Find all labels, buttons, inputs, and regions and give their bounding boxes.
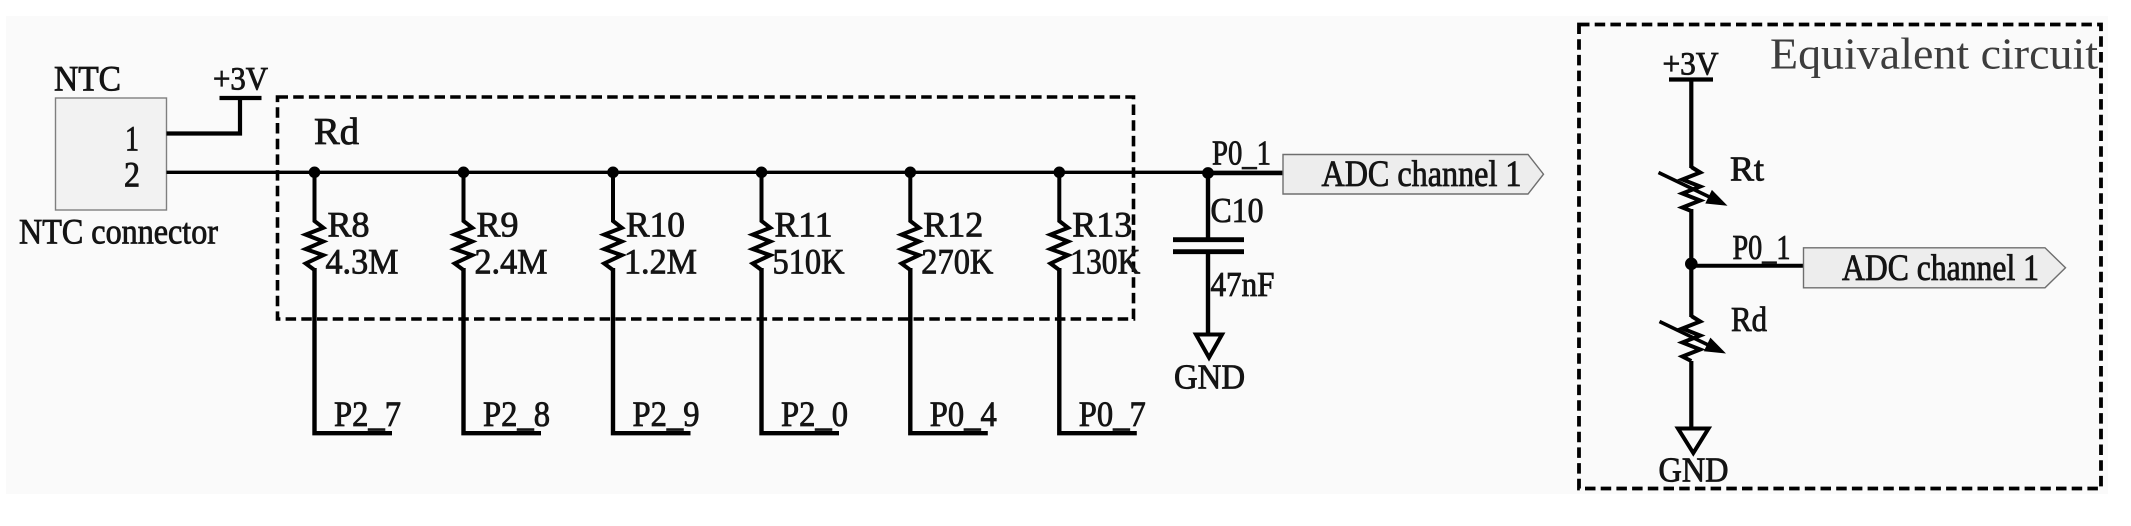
svg-text:ADC channel 1: ADC channel 1	[1322, 154, 1522, 195]
svg-text:GND: GND	[1174, 358, 1245, 397]
title Equivalent circuit	[1770, 30, 2098, 79]
node P0_1 junction dot (right)	[1685, 258, 1698, 271]
svg-text:510K: 510K	[773, 242, 845, 282]
resistor R11	[753, 172, 771, 270]
svg-text:130K: 130K	[1070, 242, 1140, 282]
resistor Rd zigzag	[1682, 316, 1700, 361]
wire R8 to pin P2_7	[315, 268, 393, 433]
svg-text:P2_9: P2_9	[633, 394, 700, 434]
wire node to Rd	[1689, 264, 1693, 317]
svg-text:ADC channel 1: ADC channel 1	[1842, 248, 2039, 289]
resistor R10	[604, 172, 622, 270]
svg-text:R13: R13	[1072, 205, 1132, 245]
junction dot at R12	[905, 167, 917, 179]
junction dot at R11	[756, 167, 768, 179]
resistor Rt wiper arrow	[1659, 173, 1728, 206]
pin label P2_7	[334, 394, 401, 434]
svg-text:R11: R11	[775, 205, 833, 245]
node P0_1 label	[1212, 134, 1271, 173]
value 270K of R12	[921, 242, 993, 282]
junction dot at R13	[1054, 167, 1066, 179]
wire R13 to pin P0_7	[1059, 268, 1137, 433]
svg-text:P2_8: P2_8	[483, 394, 550, 434]
wire node to ADC flag (right)	[1691, 264, 1804, 268]
label R11	[775, 205, 833, 245]
svg-text:NTC connector: NTC connector	[19, 212, 218, 252]
wire R9 to pin P2_8	[464, 268, 542, 433]
resistor Rd wiper arrow	[1660, 322, 1727, 354]
svg-text:1.2M: 1.2M	[624, 242, 697, 282]
power +3V label (left)	[213, 62, 268, 98]
junction dot at R10	[607, 167, 619, 179]
pin label P0_7	[1079, 394, 1146, 434]
wire +3V to Rt	[1689, 80, 1693, 169]
ground label GND (right)	[1659, 451, 1729, 490]
wire R11 to pin P2_0	[762, 268, 840, 433]
capacitor C10 value 47nF	[1211, 265, 1275, 304]
node P0_1 junction dot	[1202, 167, 1214, 179]
svg-text:Rt: Rt	[1730, 150, 1764, 189]
svg-text:2: 2	[124, 155, 140, 195]
power +3V bar symbol (left)	[220, 96, 262, 100]
svg-text:P0_4: P0_4	[930, 394, 997, 434]
svg-text:1: 1	[125, 119, 139, 159]
svg-text:C10: C10	[1211, 191, 1264, 230]
svg-text:2.4M: 2.4M	[475, 242, 548, 282]
connector pin 2 label	[124, 155, 140, 195]
svg-text:P2_7: P2_7	[334, 394, 401, 434]
ground symbol (right)	[1678, 429, 1709, 454]
label Rd (right)	[1731, 300, 1767, 339]
value 510K of R11	[773, 242, 845, 282]
junction dot at R9	[458, 167, 470, 179]
connector J: NTC label	[54, 59, 121, 99]
wire node to ADC flag	[1208, 171, 1284, 175]
wire Rt to node	[1689, 209, 1693, 265]
capacitor C10 plates	[1173, 240, 1244, 252]
svg-text:P0_1: P0_1	[1212, 134, 1271, 173]
value 2.4M of R9	[475, 242, 548, 282]
resistor R13	[1051, 172, 1069, 270]
capacitor C10 bottom lead	[1206, 253, 1210, 334]
value 130K of R13	[1070, 242, 1140, 282]
label R10	[626, 205, 685, 245]
pin label P2_8	[483, 394, 550, 434]
label R12	[923, 205, 983, 245]
wire R10 to pin P2_9	[613, 268, 691, 433]
svg-text:P0_7: P0_7	[1079, 394, 1146, 434]
wire pin1 to +3V	[167, 96, 241, 134]
wire Rd to ground	[1689, 361, 1693, 429]
pin label P2_0	[781, 394, 848, 434]
svg-text:R8: R8	[328, 205, 370, 245]
power +3V bar symbol (right)	[1669, 77, 1713, 81]
wire R12 to pin P0_4	[910, 268, 988, 433]
svg-text:GND: GND	[1659, 451, 1729, 490]
svg-text:270K: 270K	[921, 242, 993, 282]
svg-text:NTC: NTC	[54, 59, 121, 99]
connector caption: NTC connector	[19, 212, 218, 252]
dashed box Rd group	[278, 97, 1134, 319]
pin label P2_9	[633, 394, 700, 434]
ground symbol (left)	[1196, 335, 1222, 358]
value 4.3M of R8	[326, 242, 399, 282]
label Rt	[1730, 150, 1764, 189]
label R8	[328, 205, 370, 245]
label R13	[1072, 205, 1132, 245]
label R9	[477, 205, 519, 245]
wire bus pin2 node A	[167, 171, 1284, 174]
svg-text:R10: R10	[626, 205, 685, 245]
connector pin 1 label	[125, 119, 139, 159]
power +3V label (right)	[1663, 47, 1719, 83]
svg-text:P0_1: P0_1	[1733, 228, 1791, 267]
svg-text:Rd: Rd	[314, 111, 359, 153]
svg-text:+3V: +3V	[213, 62, 268, 98]
svg-text:P2_0: P2_0	[781, 394, 848, 434]
value 1.2M of R10	[624, 242, 697, 282]
label Rd	[314, 111, 359, 153]
resistor R12	[902, 172, 920, 270]
dashed box Equivalent circuit	[1579, 25, 2101, 489]
svg-text:+3V: +3V	[1663, 47, 1719, 83]
resistor R9	[455, 172, 473, 270]
svg-text:R12: R12	[923, 205, 983, 245]
svg-text:4.3M: 4.3M	[326, 242, 399, 282]
svg-text:R9: R9	[477, 205, 519, 245]
svg-text:Equivalent circuit: Equivalent circuit	[1770, 30, 2098, 79]
connector J: NTC connector body	[56, 98, 167, 210]
node P0_1 label (right)	[1733, 228, 1791, 267]
ADC channel 1 flag (left)	[1283, 154, 1544, 195]
pin label P0_4	[930, 394, 997, 434]
resistor R8	[306, 172, 324, 270]
ground label GND (left)	[1174, 358, 1245, 397]
svg-text:Rd: Rd	[1731, 300, 1767, 339]
svg-text:47nF: 47nF	[1211, 265, 1275, 304]
capacitor C10 top lead	[1206, 173, 1210, 238]
capacitor C10 label	[1211, 191, 1264, 230]
resistor Rt zigzag	[1682, 167, 1700, 211]
junction dot at R8	[309, 167, 321, 179]
ADC channel 1 flag (right)	[1804, 248, 2066, 289]
